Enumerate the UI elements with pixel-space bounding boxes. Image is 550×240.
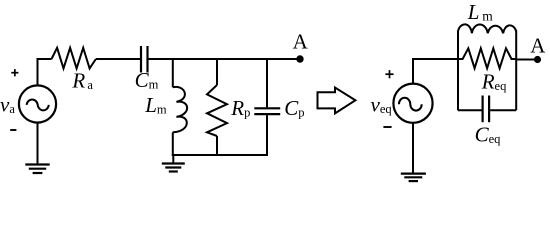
svg-text:veq: veq [371, 93, 393, 117]
wire Veq top to network [413, 59, 459, 84]
wire Cm to node A [149, 58, 301, 60]
svg-text:Lm: Lm [467, 0, 493, 24]
wire Ra to Cm [96, 58, 140, 60]
plus sign of Va [11, 69, 18, 76]
ground left [25, 124, 49, 174]
minus sign of Veq [383, 126, 391, 128]
svg-text:Cm: Cm [135, 68, 159, 92]
minus sign of Va [10, 129, 16, 131]
wire from Va top to Ra [38, 59, 52, 85]
node A left dot [296, 55, 303, 62]
svg-text:Cp: Cp [284, 96, 304, 120]
ground right [401, 124, 426, 182]
inductor Lm [173, 58, 187, 156]
plus sign of Veq [385, 70, 393, 78]
ground middle [162, 155, 185, 172]
svg-text:Req: Req [481, 70, 507, 94]
svg-text:Lm: Lm [144, 93, 167, 117]
svg-text:Rp: Rp [230, 96, 250, 120]
bottom wire of parallel branch [172, 154, 268, 156]
resistor Ra [52, 48, 96, 69]
voltage source Va [19, 85, 56, 122]
capacitor Cm [141, 46, 148, 73]
resistor Rp [207, 58, 227, 156]
node A right dot [534, 56, 541, 63]
arrow (transformation) [318, 88, 356, 114]
svg-text:va: va [0, 92, 15, 116]
svg-text:A: A [293, 29, 309, 53]
voltage source Veq [393, 84, 432, 123]
network right vertical wire [515, 31, 517, 111]
capacitor Ceq [458, 96, 516, 123]
svg-text:Ra: Ra [71, 69, 93, 93]
wire network to node A right [516, 59, 535, 61]
inductor Lm equivalent [458, 24, 516, 33]
svg-text:A: A [530, 34, 546, 58]
svg-text:Ceq: Ceq [475, 122, 502, 146]
capacitor Cp [254, 58, 280, 156]
resistor Req [458, 48, 516, 68]
network left vertical wire [457, 31, 459, 111]
